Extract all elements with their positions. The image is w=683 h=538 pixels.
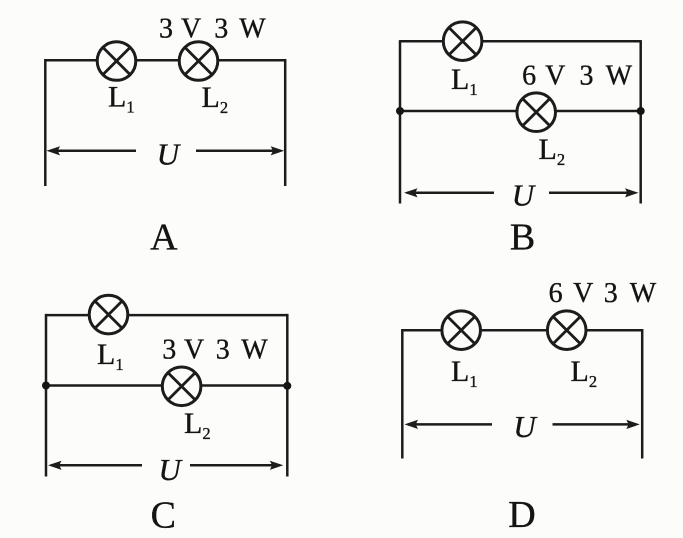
wire: B top conductor (400, 40, 641, 43)
value label 3 V 3 W (circuit C) (162, 334, 268, 365)
svg-text:U: U (159, 452, 184, 487)
svg-text:U: U (157, 137, 182, 172)
svg-text:3 V: 3 V (162, 334, 204, 365)
svg-text:U: U (513, 409, 538, 444)
svg-text:L1: L1 (451, 355, 478, 391)
junction node (B right) (637, 107, 645, 115)
svg-text:B: B (510, 217, 535, 259)
svg-text:L2: L2 (539, 133, 566, 169)
svg-text:D: D (508, 494, 535, 536)
value label 6 V 3 W (circuit B) (522, 60, 632, 91)
wire: C left vertical lead (45, 314, 48, 477)
svg-text:L1: L1 (97, 338, 124, 374)
junction node (B left) (396, 107, 404, 115)
voltage arrow U left segment (circuit D) (405, 420, 493, 429)
voltage arrow U right segment (circuit C) (190, 461, 283, 470)
svg-text:6 V: 6 V (522, 60, 565, 91)
wire: B right vertical lead (639, 40, 642, 203)
wire: A top conductor (45, 59, 285, 62)
svg-text:L2: L2 (184, 407, 211, 443)
lamp L2 (circuit A) (179, 42, 218, 81)
wire: A right vertical lead (284, 59, 287, 186)
lamp L1 (circuit B) (443, 22, 482, 61)
junction node (C right) (283, 382, 291, 390)
svg-text:L1: L1 (451, 63, 478, 99)
wire: D left vertical lead (401, 329, 404, 459)
lamp L1 (circuit A) (97, 42, 136, 81)
wire: D right vertical lead (641, 329, 644, 459)
svg-text:C: C (151, 495, 176, 537)
svg-text:3 V: 3 V (159, 13, 201, 44)
lamp L2 (circuit D) (547, 311, 586, 350)
svg-text:A: A (150, 217, 178, 259)
value label 3 V 3 W (circuit A) (159, 13, 266, 44)
svg-text:3 W: 3 W (604, 278, 657, 309)
voltage arrow U right segment (circuit B) (549, 188, 639, 197)
voltage arrow U left segment (circuit A) (47, 146, 137, 155)
junction node (C left) (42, 382, 50, 390)
lamp L1 (circuit D) (442, 311, 481, 350)
voltage arrow U left segment (circuit C) (48, 461, 142, 470)
svg-text:3 W: 3 W (580, 60, 633, 91)
svg-text:L2: L2 (202, 81, 229, 117)
voltage arrow U left segment (circuit B) (404, 188, 494, 197)
svg-text:6 V: 6 V (549, 278, 594, 309)
wire: A left vertical lead (44, 59, 47, 186)
svg-text:L1: L1 (108, 81, 135, 117)
voltage arrow U right segment (circuit A) (196, 146, 284, 155)
wire: D top conductor (402, 329, 642, 332)
lamp L2 (circuit C) (162, 367, 201, 406)
lamp L2 (circuit B) (517, 93, 556, 132)
value label 6 V 3 W (circuit D) (549, 278, 657, 309)
svg-text:L2: L2 (571, 355, 598, 391)
wire: C middle conductor (46, 384, 287, 387)
voltage arrow U right segment (circuit D) (553, 420, 640, 429)
wire: B middle conductor (400, 110, 641, 113)
wire: C right vertical lead (286, 314, 289, 477)
svg-text:3 W: 3 W (216, 334, 269, 365)
svg-text:3 W: 3 W (214, 13, 266, 44)
svg-text:U: U (512, 178, 537, 213)
wire: B left vertical lead (399, 40, 402, 203)
wire: C top conductor (46, 314, 287, 317)
lamp L1 (circuit C) (89, 295, 128, 334)
